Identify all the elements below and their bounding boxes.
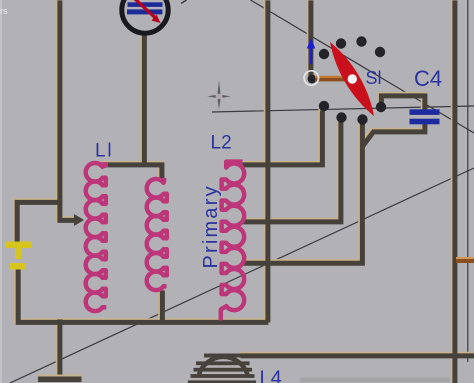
wire rotor feed (orange): [315, 76, 346, 78]
wire bottom long: [240, 353, 474, 358]
thin guide line (near-horizontal from cursor): [212, 106, 474, 112]
wire C4 loop top: [380, 95, 424, 110]
wire bottom long: [239, 352, 473, 358]
wire L2 mid tap: [242, 120, 341, 221]
thin guide tick top: [181, 0, 187, 4]
coil L4 (loop antenna): [188, 354, 256, 383]
blue axis arrow: [310, 48, 312, 65]
wire mid vertical: [264, 0, 270, 321]
wire L1 right bottom: [158, 289, 164, 321]
wire C4 loop bottom: [363, 123, 425, 145]
wire L1 top bar: [103, 165, 161, 180]
svg-text:rs: rs: [0, 6, 8, 16]
svg-text:C4: C4: [414, 66, 442, 91]
inductor L2 winding: [221, 162, 244, 321]
wire right vertical: [451, 0, 457, 382]
wire L2 top to contact: [241, 109, 321, 164]
ground T bar: [38, 376, 82, 383]
wire arrow branch: [60, 199, 75, 220]
wire left vertical + battery branch: [16, 0, 59, 241]
origin marker: [304, 71, 318, 85]
capacitor C4 plates: [410, 109, 440, 115]
wire L2 low tap: [242, 122, 362, 263]
battery B1: [6, 242, 32, 270]
wire ground stub: [56, 318, 62, 375]
wire left vertical + battery branch: [17, 0, 60, 242]
arrow head into L1: [74, 214, 84, 226]
meter M1: [122, 0, 168, 33]
wire switch common drop: [311, 0, 318, 79]
left panel edge strip: [0, 0, 2, 383]
wire L1 right bottom: [160, 290, 165, 322]
wire C4 loop top: [381, 96, 425, 111]
thin guide line (long diagonal lower): [10, 168, 474, 383]
wire L2 top to contact: [242, 110, 322, 164]
svg-text:L2: L2: [211, 133, 232, 154]
thin guide line (long diagonal upper): [251, 0, 474, 133]
wire meter drop: [142, 33, 147, 165]
svg-text:Primary: Primary: [200, 184, 222, 268]
wire L1 top bar: [102, 164, 161, 179]
inductor L1 right winding: [147, 179, 167, 290]
wire meter drop: [140, 32, 146, 164]
thin guide line (right vertical): [467, 0, 469, 362]
wire battery to bottom bus: [17, 268, 267, 321]
switch S1 rotor: [330, 42, 374, 116]
wire L2 low tap: [241, 121, 361, 262]
inductor L1 left winding: [86, 162, 108, 311]
svg-text:Sl: Sl: [366, 68, 382, 88]
wire right vertical: [452, 0, 457, 383]
switch S1 contacts: [308, 36, 387, 124]
wire battery to bottom bus: [18, 269, 268, 322]
wire ground stub: [57, 319, 62, 376]
wire L2 mid tap: [241, 119, 340, 221]
wire switch common drop: [310, 0, 317, 78]
wire mid vertical: [265, 0, 270, 322]
wire right stub (orange): [456, 257, 474, 259]
wire arrow branch: [59, 198, 74, 219]
svg-text:Ll: Ll: [95, 141, 113, 162]
faint cut-off wire bottom: [300, 378, 450, 383]
wire C4 loop bottom: [362, 122, 424, 145]
cursor crosshair: [207, 81, 231, 110]
svg-text:L4: L4: [260, 368, 282, 383]
